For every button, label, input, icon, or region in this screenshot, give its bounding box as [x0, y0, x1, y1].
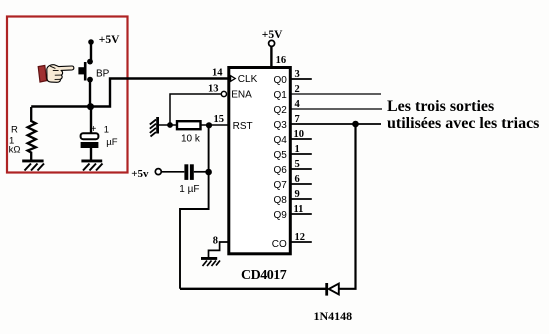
svg-text:µF: µF [106, 137, 117, 148]
svg-text:kΩ: kΩ [9, 145, 21, 156]
svg-text:1N4148: 1N4148 [314, 309, 353, 323]
svg-text:R: R [11, 125, 18, 136]
svg-text:Q3: Q3 [273, 120, 287, 131]
svg-text:7: 7 [295, 114, 300, 125]
svg-text:RST: RST [233, 121, 253, 132]
svg-text:4: 4 [295, 99, 301, 110]
svg-text:CD4017: CD4017 [241, 268, 287, 283]
svg-text:2: 2 [295, 84, 300, 95]
svg-text:15: 15 [214, 114, 225, 125]
svg-text:Q7: Q7 [273, 180, 287, 191]
svg-text:Les trois sorties: Les trois sorties [387, 98, 494, 115]
svg-text:14: 14 [212, 68, 223, 79]
svg-text:10: 10 [294, 129, 305, 140]
svg-text:+5v: +5v [131, 168, 149, 180]
svg-text:8: 8 [213, 236, 218, 247]
svg-text:Q2: Q2 [273, 105, 287, 116]
svg-text:utilisées avec les triacs: utilisées avec les triacs [387, 115, 539, 132]
svg-text:Q9: Q9 [273, 210, 287, 221]
svg-text:CLK: CLK [238, 74, 258, 85]
svg-text:+5V: +5V [99, 34, 120, 46]
svg-text:Q0: Q0 [273, 75, 287, 86]
svg-text:1: 1 [295, 144, 300, 155]
svg-text:5: 5 [295, 159, 300, 170]
svg-text:11: 11 [294, 204, 304, 215]
svg-text:10 k: 10 k [181, 134, 201, 145]
svg-text:+5V: +5V [262, 29, 283, 41]
svg-text:1: 1 [104, 125, 109, 136]
svg-text:13: 13 [208, 84, 219, 95]
svg-text:Q6: Q6 [273, 165, 287, 176]
svg-text:CO: CO [272, 239, 287, 250]
svg-text:Q1: Q1 [273, 90, 287, 101]
svg-text:16: 16 [276, 55, 287, 66]
svg-text:BP: BP [96, 68, 110, 79]
svg-text:6: 6 [295, 174, 300, 185]
svg-text:+: + [91, 124, 97, 135]
svg-text:Q4: Q4 [273, 135, 287, 146]
svg-text:ENA: ENA [231, 90, 252, 101]
svg-text:3: 3 [295, 69, 300, 80]
svg-text:Q5: Q5 [273, 150, 287, 161]
svg-text:9: 9 [295, 189, 300, 200]
svg-text:12: 12 [295, 232, 306, 243]
svg-text:Q8: Q8 [273, 195, 287, 206]
svg-text:1 µF: 1 µF [179, 184, 199, 195]
